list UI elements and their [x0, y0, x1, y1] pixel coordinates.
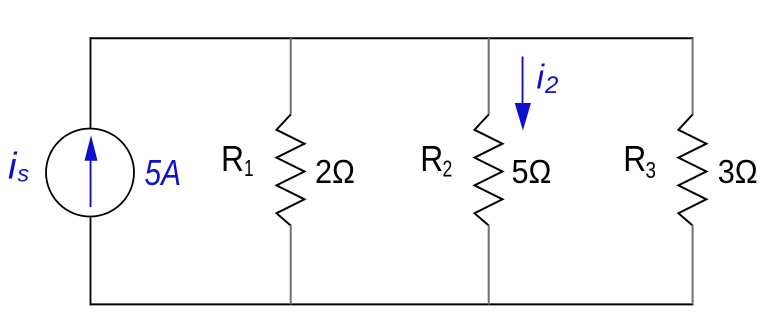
svg-text:1: 1 — [244, 155, 254, 181]
svg-text:3Ω: 3Ω — [718, 153, 758, 190]
current source U1 circle — [46, 129, 134, 217]
svg-text:R: R — [221, 138, 244, 179]
wire R3 bottom stub — [692, 225, 694, 305]
svg-text:2: 2 — [443, 156, 453, 182]
wire bottom horizontal — [90, 303, 694, 305]
current arrow i2 (blue, down) — [515, 57, 531, 131]
wire R1 bottom stub — [290, 225, 292, 305]
svg-text:R: R — [420, 138, 443, 179]
svg-text:5Ω: 5Ω — [512, 153, 552, 190]
svg-text:R: R — [623, 138, 646, 179]
resistor R3 zigzag — [678, 115, 706, 226]
resistor R1 zigzag — [277, 115, 305, 226]
wire left lower segment — [90, 218, 92, 306]
wire left upper segment — [90, 37, 92, 128]
wire R2 bottom stub — [488, 225, 490, 305]
label R3 — [623, 138, 656, 183]
svg-text:s: s — [18, 161, 30, 187]
label is — [8, 145, 30, 187]
svg-text:2: 2 — [544, 72, 558, 99]
label R1 — [221, 138, 254, 181]
label R2 — [420, 138, 452, 182]
resistor R2 zigzag — [475, 115, 503, 226]
node A: R1 branch top stub — [290, 38, 292, 115]
svg-text:5A: 5A — [145, 152, 182, 193]
node B: R2 branch top stub — [488, 38, 490, 115]
wire R3 branch top stub (right side) — [692, 38, 694, 115]
svg-text:2Ω: 2Ω — [315, 153, 355, 190]
current source arrow (blue, up) — [85, 135, 98, 207]
wire top horizontal — [90, 37, 694, 39]
label i2 — [537, 58, 559, 99]
svg-text:3: 3 — [646, 157, 657, 183]
